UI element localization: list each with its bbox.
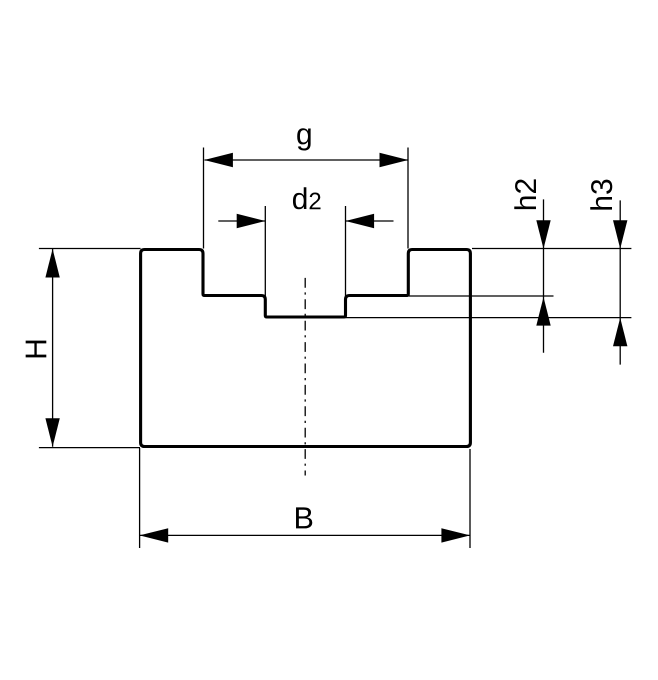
- h2 extension line shelf: [409, 295, 554, 297]
- h3 down arrow: [613, 220, 627, 249]
- d2 dimension line tails: [218, 220, 265, 222]
- h3 up arrow: [613, 318, 627, 347]
- d2 label: [293, 187, 321, 209]
- g extension lines: [203, 148, 205, 249]
- H top arrow: [45, 249, 59, 278]
- h3 label: [590, 180, 612, 210]
- B right arrow: [441, 528, 470, 542]
- g label: [297, 128, 310, 150]
- h3 dimension line: [619, 200, 621, 364]
- h2 label: [514, 179, 536, 209]
- centerline: [304, 278, 306, 476]
- H extension lines: [39, 248, 141, 250]
- H bottom arrow: [45, 418, 59, 447]
- g left arrow: [204, 153, 233, 167]
- profile body outline: [141, 250, 471, 447]
- h3 extension line bottom: [346, 317, 632, 319]
- B left arrow: [140, 528, 169, 542]
- h2 up arrow: [536, 297, 550, 326]
- H dimension line: [52, 249, 54, 447]
- B dimension line: [140, 534, 470, 536]
- H label: [26, 341, 47, 358]
- h2 dimension line: [543, 199, 545, 352]
- g right arrow: [380, 153, 409, 167]
- d2 right arrow: [346, 214, 375, 228]
- h2 down arrow: [536, 220, 550, 249]
- d2 left arrow: [237, 214, 266, 228]
- B extension lines: [139, 448, 141, 548]
- d2 extension lines: [264, 206, 266, 296]
- B label: [296, 507, 312, 528]
- g dimension line: [205, 159, 409, 161]
- h2 extension line top: [472, 248, 631, 250]
